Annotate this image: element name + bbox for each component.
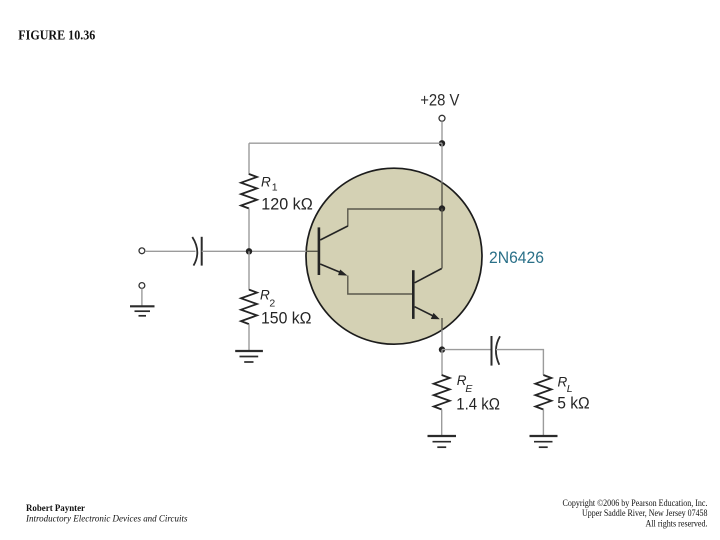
svg-text:1.4 kΩ: 1.4 kΩ [456, 395, 500, 414]
node Vcc junction [439, 140, 445, 146]
svg-text:2: 2 [269, 297, 275, 309]
wire supply vertical (terminal to Vcc node) [441, 121, 443, 143]
wire C2 to RL [496, 350, 544, 375]
resistor R1 [241, 174, 257, 209]
capacitor C1 (input) [192, 237, 197, 266]
wire R2 top [248, 251, 250, 290]
resistor RL [535, 375, 551, 410]
wire Vcc into package [441, 143, 443, 182]
wire base into package [306, 250, 318, 252]
input ground terminal [139, 283, 145, 289]
ground (RE) [428, 436, 457, 447]
svg-text:Introductory Electronic Device: Introductory Electronic Devices and Circ… [25, 514, 188, 524]
wire RE bottom [441, 410, 443, 436]
svg-text:Upper Saddle River, New Jersey: Upper Saddle River, New Jersey 07458 [582, 508, 708, 518]
wire top horizontal [249, 142, 442, 144]
wire Q1 emitter to Q2 base [348, 276, 412, 295]
supply terminal [439, 115, 445, 121]
svg-text:R: R [261, 175, 271, 190]
node base junction [246, 248, 252, 254]
svg-text:2N6426: 2N6426 [489, 248, 544, 267]
svg-text:Robert Paynter: Robert Paynter [26, 503, 85, 513]
node collector junction [439, 205, 445, 211]
wire RL bottom [542, 410, 544, 436]
wire Q2 collector vertical [441, 209, 443, 269]
input terminal [139, 248, 145, 254]
transistor Q1 [319, 226, 348, 276]
svg-text:E: E [465, 383, 473, 395]
wire ground stub [141, 288, 143, 305]
wire emitter to capacitor C2 [442, 349, 492, 351]
ground (RL) [530, 436, 558, 447]
wire R2 bottom [248, 324, 250, 350]
wire input to capacitor [145, 250, 196, 252]
resistor RE [434, 375, 450, 410]
wire RE top [441, 350, 443, 376]
ground (input) [130, 306, 155, 316]
svg-text:+28 V: +28 V [420, 91, 460, 110]
wire C1 to base node [202, 250, 307, 252]
resistor R2 [241, 290, 257, 325]
wire R1 top [248, 143, 250, 175]
capacitor C2 (output) [491, 336, 493, 366]
svg-text:5 kΩ: 5 kΩ [557, 394, 590, 413]
svg-text:FIGURE 10.36: FIGURE 10.36 [18, 28, 95, 43]
wire R1 bottom [248, 209, 250, 252]
transistor package circle (2N6426) [306, 168, 482, 344]
wire Q2 emitter down [441, 318, 443, 330]
svg-text:Copyright ©2006 by Pearson Edu: Copyright ©2006 by Pearson Education, In… [563, 498, 708, 508]
node emitter junction [439, 346, 445, 352]
wire Q1 collector jog [348, 209, 442, 227]
transistor Q2 [413, 269, 441, 320]
svg-text:1: 1 [272, 182, 278, 194]
svg-text:150 kΩ: 150 kΩ [261, 309, 312, 328]
svg-text:120 kΩ: 120 kΩ [261, 194, 313, 213]
ground (R2) [235, 351, 263, 362]
svg-text:All rights reserved.: All rights reserved. [646, 518, 708, 528]
